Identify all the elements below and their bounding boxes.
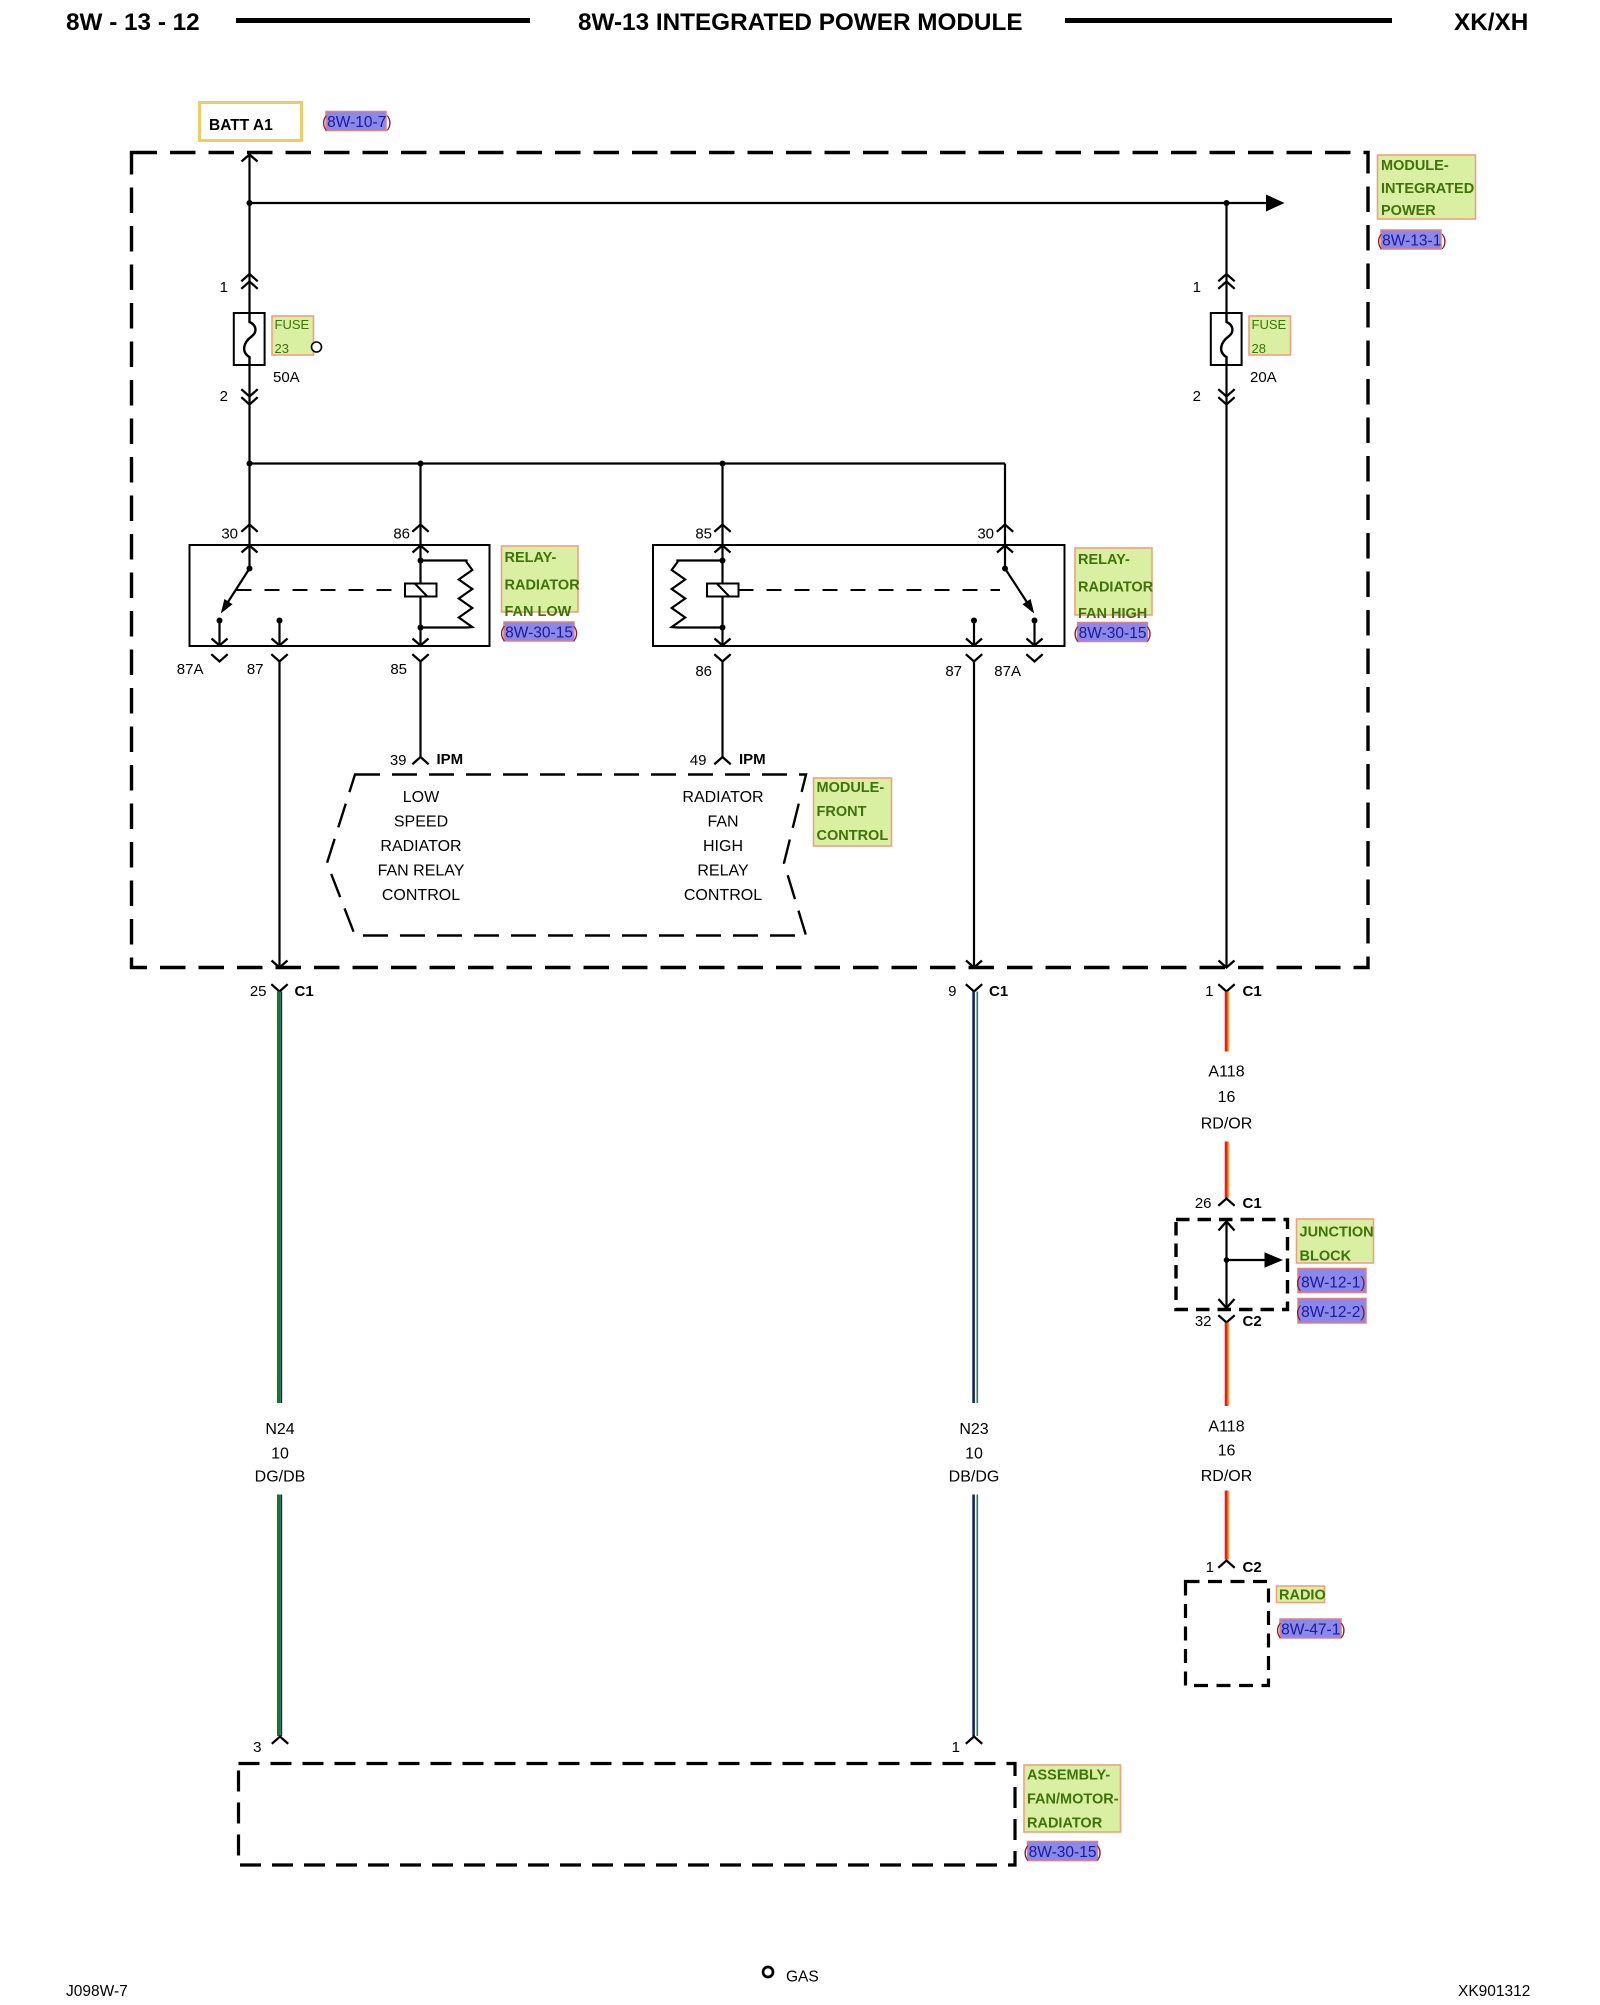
connector pin 2 (fuse 28) <box>1193 388 1235 405</box>
wire label A118 16 RD/OR upper <box>1201 1064 1253 1133</box>
svg-text:50A: 50A <box>273 369 300 386</box>
relay high switch blade to 87A <box>1005 569 1034 614</box>
wire from BATT A1 into IPM with arrow <box>242 155 258 204</box>
reference (8W-12-2) <box>1296 1299 1366 1324</box>
svg-text:LOW: LOW <box>403 789 440 806</box>
relay low pin 86 connector <box>393 525 428 543</box>
relay high suppression resistor <box>672 561 723 628</box>
relay high pin 30 connector <box>977 525 1013 543</box>
connector pin 1 (fuse 23) <box>220 274 258 296</box>
svg-text:(8W-30-15): (8W-30-15) <box>500 625 578 642</box>
svg-text:C2: C2 <box>1243 1559 1262 1576</box>
svg-text:SPEED: SPEED <box>394 814 448 831</box>
svg-text:MODULE-: MODULE- <box>1381 158 1449 174</box>
svg-text:XK901312: XK901312 <box>1458 1983 1530 2000</box>
svg-text:A118: A118 <box>1208 1419 1244 1436</box>
svg-text:FAN LOW: FAN LOW <box>505 604 572 620</box>
label JUNCTION BLOCK <box>1297 1219 1374 1265</box>
fan assembly connector pin 3 <box>253 1737 288 1757</box>
svg-text:86: 86 <box>695 663 712 680</box>
svg-text:RADIATOR: RADIATOR <box>505 578 581 594</box>
svg-text:25: 25 <box>250 983 267 1000</box>
header rule left <box>236 18 530 23</box>
svg-text:23: 23 <box>275 341 289 356</box>
wire bus corner to high relay pin30 <box>1004 464 1006 546</box>
radiator fan/motor assembly dashed outline <box>239 1764 1016 1866</box>
relay high coil entry arrow <box>715 546 731 584</box>
wire label N23 10 DB/DG <box>949 1421 1000 1486</box>
wire relay high 86 to IPM 49 <box>721 662 723 758</box>
svg-text:10: 10 <box>965 1446 983 1463</box>
label MODULE-INTEGRATED POWER <box>1378 155 1476 219</box>
reference (8W-30-15) assembly <box>1024 1842 1102 1862</box>
svg-text:9: 9 <box>948 983 956 1000</box>
relay low switch pivot node <box>247 566 253 572</box>
svg-text:FAN HIGH: FAN HIGH <box>1078 606 1147 622</box>
svg-text:IPM: IPM <box>739 751 766 768</box>
svg-text:(8W-47-1): (8W-47-1) <box>1276 1622 1346 1639</box>
footer gas marker <box>763 1967 819 1986</box>
wire bus to low relay pin86 <box>419 464 421 546</box>
label MODULE-FRONT CONTROL <box>814 778 892 846</box>
svg-text:8W - 13 - 12: 8W - 13 - 12 <box>66 9 200 36</box>
reference (8W-10-7) <box>322 112 392 132</box>
svg-text:1: 1 <box>1193 279 1201 296</box>
wire fuse28 down to IPM exit <box>1219 365 1235 968</box>
fuse 28 <box>1211 313 1242 365</box>
relay high pin 87 connector <box>945 654 982 680</box>
relay low pin 87 connector <box>247 654 288 678</box>
svg-text:BLOCK: BLOCK <box>1300 1249 1352 1265</box>
svg-text:32: 32 <box>1195 1313 1212 1330</box>
svg-text:87A: 87A <box>177 661 204 678</box>
svg-text:1: 1 <box>220 279 228 296</box>
svg-text:INTEGRATED: INTEGRATED <box>1381 181 1474 197</box>
svg-text:XK/XH: XK/XH <box>1454 9 1528 36</box>
relay low pin30 entry arrow <box>242 546 258 569</box>
node bus left <box>247 461 253 467</box>
svg-text:28: 28 <box>1252 341 1266 356</box>
svg-text:1: 1 <box>1206 1559 1214 1576</box>
svg-text:(8W-30-15): (8W-30-15) <box>1074 625 1152 642</box>
IPM pin 39 connector <box>390 751 463 769</box>
svg-text:RD/OR: RD/OR <box>1201 1116 1253 1133</box>
reference (8W-47-1) <box>1276 1619 1346 1639</box>
svg-text:8W-13 INTEGRATED POWER MODULE: 8W-13 INTEGRATED POWER MODULE <box>578 9 1023 36</box>
svg-text:10: 10 <box>271 1446 289 1463</box>
battery feed BATT A1 box <box>200 103 302 141</box>
IPM pin 49 connector <box>690 751 766 769</box>
svg-text:16: 16 <box>1218 1089 1236 1106</box>
relay high pin 85 connector <box>695 525 730 543</box>
svg-text:JUNCTION: JUNCTION <box>1300 1225 1374 1241</box>
relay low wire 87 to box edge <box>272 621 288 646</box>
svg-text:87: 87 <box>247 661 264 678</box>
svg-text:BATT A1: BATT A1 <box>209 117 273 134</box>
module-integrated power dashed outline <box>132 153 1369 968</box>
module-front control dashed outline <box>327 775 806 936</box>
svg-text:1: 1 <box>952 1739 960 1756</box>
svg-text:2: 2 <box>220 388 228 405</box>
svg-text:CONTROL: CONTROL <box>382 887 460 904</box>
svg-text:86: 86 <box>393 526 410 543</box>
svg-text:87A: 87A <box>994 663 1021 680</box>
radio dashed outline <box>1186 1582 1269 1686</box>
node bus at relay low coil <box>418 461 424 467</box>
wire N23 upper dark blue/dark green <box>974 992 978 1404</box>
net radiator fan high relay control <box>682 789 763 904</box>
svg-text:16: 16 <box>1218 1443 1236 1460</box>
svg-text:(8W-12-1): (8W-12-1) <box>1296 1275 1366 1292</box>
svg-text:49: 49 <box>690 752 707 769</box>
node above fuse 28 <box>1224 200 1230 206</box>
relay low coil <box>405 584 437 597</box>
svg-text:A118: A118 <box>1208 1064 1244 1081</box>
relay low pin 87A connector <box>177 654 228 678</box>
svg-text:85: 85 <box>695 526 712 543</box>
IPM connector pin 25 C1 <box>250 983 314 1000</box>
svg-text:RELAY-: RELAY- <box>1078 552 1130 568</box>
relay high 87A contact node <box>1032 618 1038 624</box>
label ASSEMBLY-FAN/MOTOR-RADIATOR <box>1024 1765 1121 1832</box>
node at top feed junction <box>247 200 253 206</box>
svg-text:DB/DG: DB/DG <box>949 1469 1000 1486</box>
junction block branch arrow <box>1227 1252 1284 1267</box>
relay low coil bottom node <box>418 625 424 631</box>
relay high wire coil to box edge <box>715 597 731 646</box>
svg-text:CONTROL: CONTROL <box>817 828 889 844</box>
junction block internal node <box>1224 1257 1230 1263</box>
relay high pin30 entry arrow <box>997 546 1013 569</box>
svg-text:1: 1 <box>1205 983 1213 1000</box>
wire label N24 10 DG/DB <box>255 1421 306 1486</box>
fan assembly connector pin 1 <box>952 1737 983 1757</box>
distribution bus wire <box>250 462 1006 464</box>
relay low switch blade to 87A <box>221 569 250 614</box>
svg-text:FAN: FAN <box>707 814 738 831</box>
svg-text:RADIATOR: RADIATOR <box>380 838 461 855</box>
label FUSE 23 <box>272 316 322 356</box>
label RELAY-RADIATOR FAN HIGH <box>1075 548 1154 622</box>
relay high actuating link dashed <box>739 589 1001 591</box>
IPM connector pin 1 C1 <box>1205 983 1262 1000</box>
svg-text:N23: N23 <box>959 1421 988 1438</box>
wire fuse23 branch upper <box>248 203 250 313</box>
svg-text:39: 39 <box>390 752 407 769</box>
svg-text:2: 2 <box>1193 388 1201 405</box>
svg-text:J098W-7: J098W-7 <box>66 1983 128 2000</box>
reference (8W-30-15) high <box>1074 623 1152 643</box>
relay low 87 contact node <box>277 618 283 624</box>
relay low suppression resistor <box>421 561 473 628</box>
relay radiator fan low body <box>190 545 490 646</box>
svg-text:(8W-12-2): (8W-12-2) <box>1296 1304 1366 1321</box>
radio connector pin 1 C2 <box>1206 1559 1262 1576</box>
relay high pin 87A connector <box>994 654 1042 680</box>
label RELAY-RADIATOR FAN LOW <box>502 546 581 620</box>
svg-text:IPM: IPM <box>437 751 464 768</box>
junction block connector pin 32 C2 <box>1195 1313 1262 1330</box>
svg-text:N24: N24 <box>265 1421 294 1438</box>
junction block entry arrow <box>1219 1222 1235 1308</box>
svg-text:GAS: GAS <box>786 1969 819 1986</box>
wire label A118 16 RD/OR lower <box>1201 1419 1253 1486</box>
svg-text:C1: C1 <box>1243 983 1262 1000</box>
connector pin 2 (fuse 23) <box>220 388 258 405</box>
feed continuation arrow <box>1266 195 1285 212</box>
svg-text:DG/DB: DG/DB <box>255 1469 306 1486</box>
svg-text:FUSE: FUSE <box>1252 317 1287 332</box>
IPM connector pin 9 C1 <box>948 983 1008 1000</box>
junction block dashed outline <box>1176 1220 1288 1310</box>
wire A118 lower red/orange <box>1226 1323 1228 1407</box>
relay low pin 30 connector <box>221 525 257 543</box>
svg-text:FRONT: FRONT <box>817 804 867 820</box>
svg-text:(8W-10-7): (8W-10-7) <box>322 114 392 131</box>
relay radiator fan high body <box>653 545 1065 646</box>
relay low 87A contact node <box>217 618 223 624</box>
svg-text:30: 30 <box>977 526 994 543</box>
svg-text:C1: C1 <box>1243 1195 1262 1212</box>
svg-text:RADIATOR: RADIATOR <box>682 789 763 806</box>
relay low wire coil to box edge <box>413 597 429 646</box>
svg-text:C1: C1 <box>295 983 314 1000</box>
junction block connector pin 26 C1 <box>1195 1195 1262 1212</box>
reference (8W-13-1) <box>1377 230 1447 250</box>
svg-text:C1: C1 <box>989 983 1008 1000</box>
connector pin 1 (fuse 28) <box>1193 274 1235 296</box>
svg-text:MODULE-: MODULE- <box>817 780 885 796</box>
horizontal feed wire to arrow <box>250 202 1267 204</box>
relay high 87 contact node <box>971 618 977 624</box>
wire bus to low relay pin30 <box>248 464 250 546</box>
wire A118 upper red/orange lower segment <box>1226 1142 1228 1199</box>
label RADIO <box>1277 1586 1326 1604</box>
reference (8W-30-15) low <box>500 622 578 642</box>
relay high switch pivot node <box>1002 566 1008 572</box>
svg-text:POWER: POWER <box>1381 203 1436 219</box>
svg-text:RELAY-: RELAY- <box>505 550 557 566</box>
svg-text:20A: 20A <box>1250 369 1277 386</box>
wire N23 lower dark blue/dark green <box>974 1495 978 1737</box>
relay high coil bottom node <box>720 625 726 631</box>
node bus at relay high coil <box>720 461 726 467</box>
header rule right <box>1065 18 1392 23</box>
svg-text:RD/OR: RD/OR <box>1201 1468 1253 1485</box>
relay high wire 87A to box edge <box>1027 621 1043 646</box>
relay low pin 85 connector <box>390 654 428 678</box>
relay low actuating link dashed <box>237 589 406 591</box>
svg-text:HIGH: HIGH <box>703 838 743 855</box>
wire fuse23 to bus <box>248 365 250 464</box>
svg-text:FAN/MOTOR-: FAN/MOTOR- <box>1027 1792 1119 1808</box>
wire relay high 87 down to IPM exit <box>966 662 982 968</box>
junction block exit arrow <box>1219 1299 1235 1308</box>
relay high wire 87 to box edge <box>966 621 982 646</box>
wire A118 upper red/orange <box>1226 992 1228 1052</box>
wire feed junction down to fuse 28 <box>1225 203 1227 313</box>
wire A118 lower red/orange segment 2 <box>1226 1491 1228 1560</box>
wire relay low 85 to IPM 39 <box>419 662 421 758</box>
svg-text:FAN RELAY: FAN RELAY <box>378 863 465 880</box>
relay high pin 86 connector <box>695 654 730 680</box>
relay high coil top node <box>720 558 726 564</box>
wire N24 upper dark green/dark blue <box>279 992 282 1404</box>
svg-text:CONTROL: CONTROL <box>684 887 762 904</box>
relay low coil entry arrow <box>413 546 429 584</box>
label FUSE 28 <box>1249 316 1291 356</box>
wire N24 lower dark green/dark blue <box>279 1495 282 1737</box>
relay low coil top node <box>418 558 424 564</box>
svg-text:RADIATOR: RADIATOR <box>1027 1816 1103 1832</box>
svg-text:ASSEMBLY-: ASSEMBLY- <box>1027 1768 1110 1784</box>
reference (8W-12-1) <box>1296 1269 1366 1293</box>
wire relay low 87 down to IPM exit <box>272 662 288 968</box>
svg-text:3: 3 <box>253 1739 261 1756</box>
svg-text:87: 87 <box>945 663 962 680</box>
svg-text:RADIO: RADIO <box>1279 1588 1326 1604</box>
svg-text:(8W-13-1): (8W-13-1) <box>1377 233 1447 250</box>
svg-text:FUSE: FUSE <box>275 317 310 332</box>
svg-text:26: 26 <box>1195 1195 1212 1212</box>
relay low wire 87A to box edge <box>212 621 228 646</box>
fuse 23 <box>234 313 265 365</box>
svg-text:(8W-30-15): (8W-30-15) <box>1024 1844 1102 1861</box>
svg-text:85: 85 <box>390 661 407 678</box>
svg-text:30: 30 <box>221 526 238 543</box>
svg-text:RELAY: RELAY <box>697 863 749 880</box>
wire bus to high relay pin85 <box>721 464 723 546</box>
relay high coil <box>707 584 739 597</box>
net low speed radiator fan relay control <box>378 789 465 904</box>
svg-text:RADIATOR: RADIATOR <box>1078 580 1154 596</box>
svg-text:C2: C2 <box>1243 1313 1262 1330</box>
